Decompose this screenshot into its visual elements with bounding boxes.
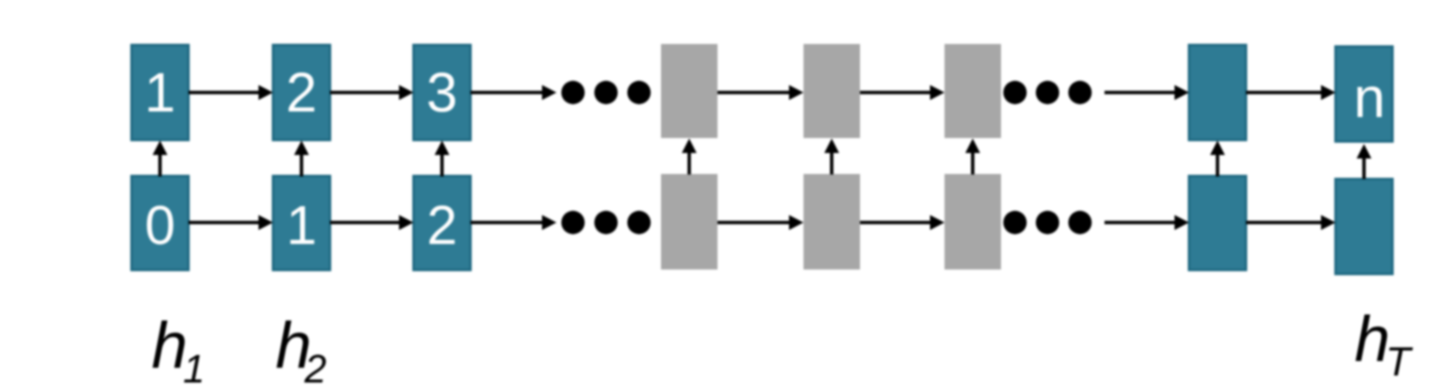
box bottom-4 (gray cell) <box>661 174 718 270</box>
svg-text:1: 1 <box>144 61 175 124</box>
box top-7 (teal cell, unlabeled) <box>1189 45 1246 140</box>
vertical arrow column 4 (gray) <box>682 139 697 175</box>
vertical arrow column 8 <box>1357 144 1372 179</box>
label h1 <box>152 309 205 391</box>
vertical arrow column 5 (gray) <box>824 139 839 175</box>
arrow bottom row 0->1 <box>189 215 274 230</box>
svg-text:3: 3 <box>426 61 457 124</box>
box top-1 (teal cell "1") <box>132 45 189 140</box>
vertical arrow column 3 <box>435 141 450 177</box>
box bottom-8 (teal cell, unlabeled) <box>1336 179 1393 274</box>
box bottom-6 (gray cell) <box>945 174 1002 270</box>
arrow bottom row gray2->gray3 <box>860 215 945 230</box>
svg-text:1: 1 <box>183 348 205 391</box>
arrow bottom row 2->ellipsis <box>471 215 557 230</box>
ellipsis bottom-right (three dots) <box>1003 211 1091 234</box>
box bottom-3 (teal cell "2") <box>414 176 471 270</box>
ellipsis top-right (three dots) <box>1003 81 1091 104</box>
box bottom-2 (teal cell "1") <box>273 176 330 270</box>
svg-text:1: 1 <box>286 194 317 256</box>
arrow bottom row ellipsis->box7 <box>1105 215 1190 230</box>
arrow top row ellipsis->box7 <box>1105 85 1190 100</box>
arrow top row gray2->gray3 <box>860 85 945 100</box>
arrow top row 2->3 <box>330 85 414 100</box>
box top-3 (teal cell "3") <box>414 45 471 140</box>
box bottom-1 (teal cell "0") <box>132 176 189 270</box>
arrow bottom row gray1->gray2 <box>718 215 804 230</box>
svg-text:0: 0 <box>145 194 176 256</box>
box top-6 (gray cell) <box>945 44 1002 138</box>
svg-text:T: T <box>1386 339 1414 385</box>
box bottom-5 (gray cell) <box>804 174 861 270</box>
vertical arrow column 2 <box>294 141 309 177</box>
svg-text:2: 2 <box>304 348 327 391</box>
arrow top row 3->ellipsis <box>471 85 557 100</box>
vertical arrow column 1 <box>153 141 168 177</box>
box top-5 (gray cell) <box>804 44 861 138</box>
arrow top row gray1->gray2 <box>718 85 804 100</box>
label hT <box>1355 303 1414 385</box>
svg-text:2: 2 <box>427 194 458 256</box>
box bottom-7 (teal cell, unlabeled) <box>1189 176 1246 270</box>
vertical arrow column 6 (gray) <box>965 139 980 175</box>
vertical arrow column 7 <box>1210 141 1225 177</box>
arrow top row 1->2 <box>189 85 274 100</box>
svg-text:2: 2 <box>286 61 317 124</box>
arrow top row box7->boxN <box>1246 85 1336 100</box>
arrow bottom row box7->box8 <box>1246 215 1336 230</box>
label h2 <box>276 309 327 391</box>
box top-2 (teal cell "2") <box>273 45 330 140</box>
ellipsis top-left (three dots) <box>561 81 650 104</box>
svg-text:n: n <box>1354 66 1386 130</box>
box top-8 (teal cell "n") <box>1336 47 1393 142</box>
box top-4 (gray cell) <box>661 44 718 138</box>
ellipsis bottom-left (three dots) <box>561 211 650 234</box>
arrow bottom row 1->2 <box>330 215 414 230</box>
